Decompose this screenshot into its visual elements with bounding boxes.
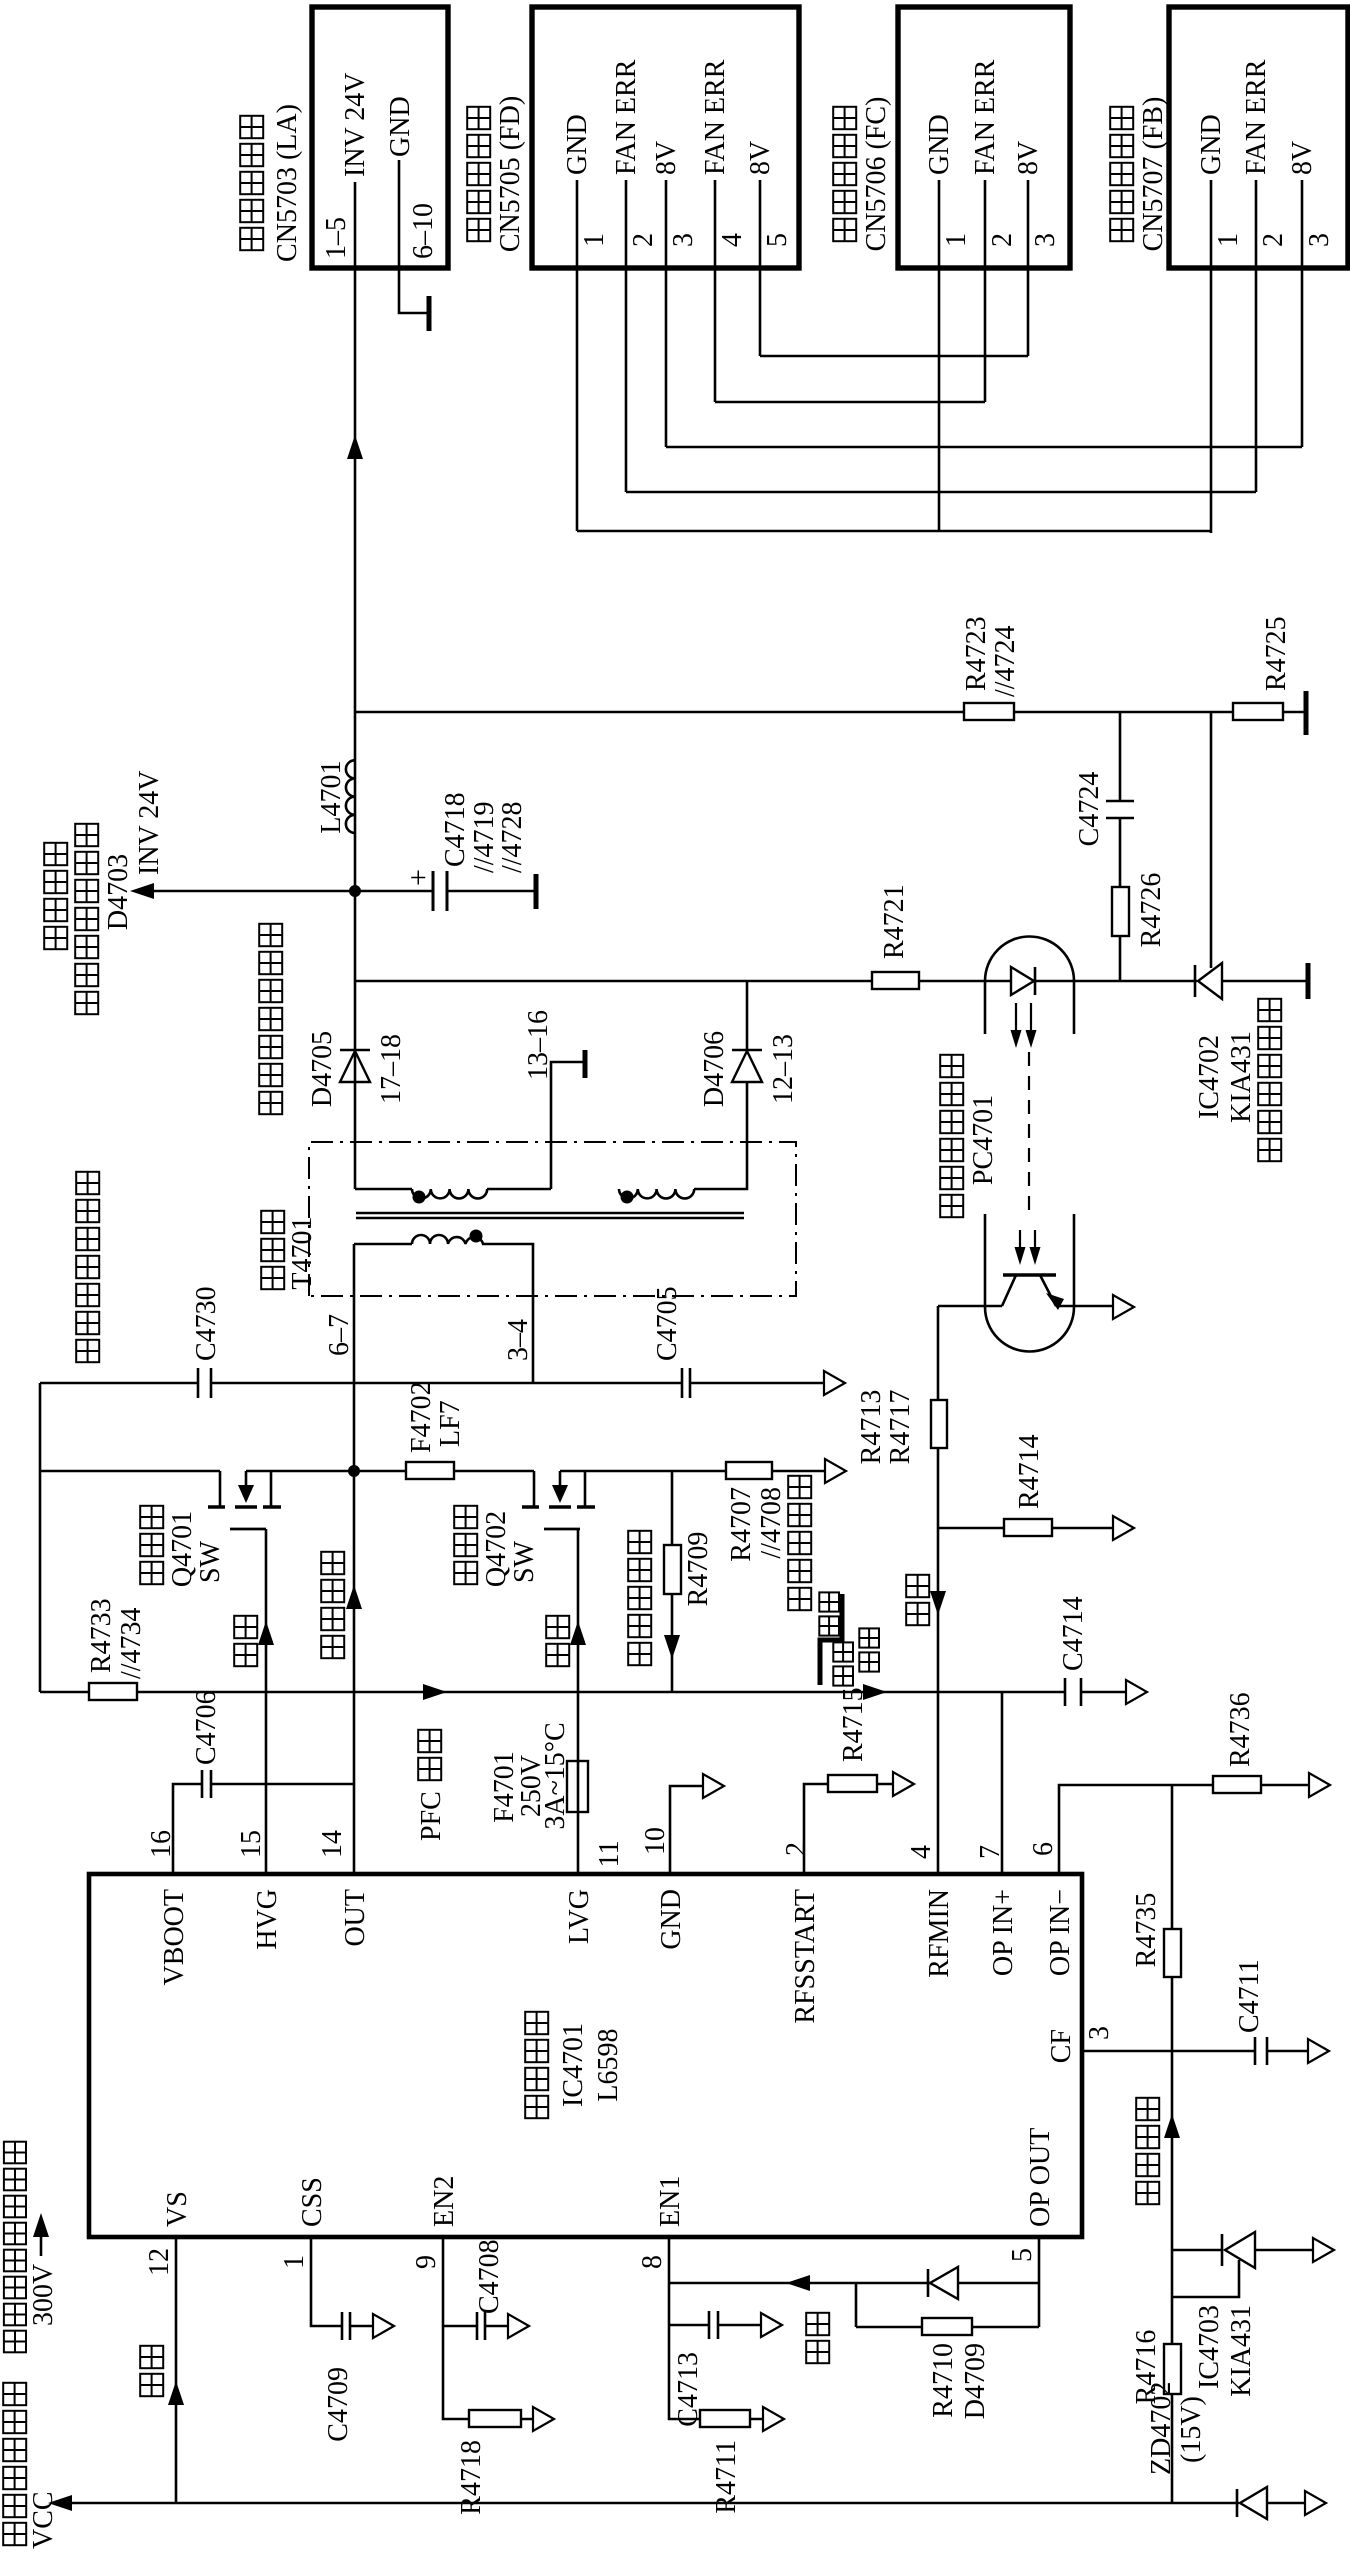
svg-text:IC4703: IC4703	[1194, 2305, 1225, 2389]
svg-text:R4714: R4714	[1014, 1434, 1045, 1509]
svg-text:6–7: 6–7	[324, 1314, 355, 1356]
svg-text:LVG: LVG	[564, 1889, 595, 1944]
wire CF pin3 branch	[1082, 2050, 1308, 2053]
svg-text:CN5703 (LA): CN5703 (LA)	[272, 104, 303, 262]
svg-text:R4723: R4723	[961, 616, 992, 691]
wire OP IN+ pin7 line	[1001, 1692, 1004, 1874]
PC4701 phototransistor arrows	[1015, 1230, 1041, 1265]
arrow 基准电压 on reference line	[1136, 2098, 1180, 2204]
wire LVG gate drive line to Q4702	[577, 1529, 580, 1874]
wire RFSSTART pin2 branch with R4715	[804, 1784, 893, 1874]
terminal triangle below C4711	[1308, 2039, 1329, 2063]
svg-text:VCC: VCC	[28, 2491, 59, 2549]
pin 12 VS	[144, 2191, 193, 2276]
shunt regulator IC4703 KIA431	[1172, 2232, 1313, 2397]
svg-text:R4715: R4715	[838, 1687, 869, 1762]
terminal triangle at pin10 GND	[703, 1774, 724, 1798]
wire FC pin3 lead	[1027, 270, 1030, 356]
svg-text:OUT: OUT	[340, 1889, 371, 1947]
transistor Q4702 SW	[454, 1471, 595, 1587]
svg-text:PC4701: PC4701	[968, 1095, 999, 1185]
wire to overvoltage protection D4703	[44, 771, 355, 1015]
svg-text:R4711: R4711	[711, 2440, 742, 2514]
svg-text:KIA431: KIA431	[1226, 2305, 1257, 2397]
svg-text:CF: CF	[1046, 2029, 1077, 2063]
wire GND bus FD1-FC1-FB1	[577, 530, 1211, 533]
svg-text:D4709: D4709	[960, 2343, 991, 2419]
svg-text:R4710: R4710	[928, 2343, 959, 2418]
resistor R4736	[1213, 1692, 1261, 1793]
arrow 供电 on VS line	[140, 2346, 184, 2405]
PC4701 phototransistor	[1002, 1275, 1064, 1310]
label 半桥式输出电路	[76, 1340, 99, 1362]
fuse F4701 250V 3A~15C	[489, 1722, 588, 1829]
pin 2 FAN ERR of CN5705	[611, 59, 659, 270]
wire D4706 output up to regulation rail tee	[746, 981, 749, 1050]
svg-text:R4713: R4713	[856, 1390, 887, 1465]
svg-text:2: 2	[781, 1842, 812, 1856]
arrow 保护 lower on PFC line	[863, 1684, 887, 1700]
svg-text:14: 14	[317, 1830, 348, 1858]
svg-text:C4724: C4724	[1074, 772, 1105, 847]
svg-text:R4736: R4736	[1225, 1692, 1256, 1767]
terminal triangle below R4736	[1309, 1773, 1330, 1797]
svg-text:8V: 8V	[745, 141, 776, 175]
resistor R4713/R4717	[856, 1390, 947, 1465]
svg-text:10: 10	[640, 1827, 671, 1855]
svg-text:FAN ERR: FAN ERR	[700, 59, 731, 175]
svg-text:L4701: L4701	[316, 760, 347, 833]
resistor R4711	[700, 2410, 750, 2514]
label 从整流滤波电路来 300V input	[4, 2142, 59, 2353]
label 二次侧整流滤波	[259, 1092, 282, 1114]
svg-text:3: 3	[668, 233, 699, 247]
svg-text:EN2: EN2	[429, 2176, 460, 2227]
svg-text:8V: 8V	[1287, 141, 1318, 175]
svg-text:15: 15	[236, 1830, 267, 1858]
svg-text:7: 7	[975, 1845, 1006, 1859]
wire secondary top lead (pin 17-18 side)	[355, 1188, 412, 1191]
svg-text:OP OUT: OP OUT	[1025, 2128, 1056, 2227]
pin 3 8V of CN5706	[1013, 141, 1061, 270]
svg-text:3A~15°C: 3A~15°C	[540, 1722, 571, 1829]
svg-text:1: 1	[579, 233, 610, 247]
svg-text:C4709: C4709	[323, 2367, 354, 2442]
svg-text:300V: 300V	[28, 2264, 59, 2326]
resistor R4710	[922, 2318, 972, 2335]
IC4701 L6598 driver box	[89, 1874, 1082, 2237]
wire EN1 protection branch to OP OUT	[669, 2283, 1039, 2327]
winding 12-13 of T4701	[619, 1189, 694, 1198]
terminal triangle below R4711	[763, 2407, 784, 2431]
svg-text:SW: SW	[509, 1540, 540, 1583]
fuse F4702 LF7	[406, 1381, 466, 1479]
svg-text:5: 5	[762, 233, 793, 247]
svg-text:CN5705 (FD): CN5705 (FD)	[495, 96, 526, 252]
wire CSS pin1 branch with C4709	[311, 2237, 373, 2326]
pin 10 GND	[640, 1827, 687, 1950]
wire KIA431 ref line / CN5707 pin1 GND lead	[1210, 712, 1213, 968]
svg-text:8V: 8V	[1013, 141, 1044, 175]
svg-text:C4718: C4718	[440, 792, 471, 867]
svg-text:OP IN−: OP IN−	[1045, 1889, 1076, 1976]
wire EN1 pin8 line	[669, 2237, 763, 2419]
svg-text:R4726: R4726	[1136, 873, 1167, 948]
arrow 稳压 on RFMIN line	[906, 1575, 946, 1625]
capacitor C4714	[1058, 1596, 1089, 1706]
pin 2 RFSSTART	[781, 1842, 821, 2024]
terminal triangle below R4715	[893, 1772, 914, 1796]
wire secondary bottom lead to D4706	[694, 1082, 747, 1189]
resistor R4735	[1131, 1893, 1181, 1977]
svg-text:1: 1	[1213, 233, 1244, 247]
svg-text:R4721: R4721	[879, 884, 910, 959]
diode D4706 (12-13 rectifier)	[699, 1031, 799, 1107]
svg-text:13–16: 13–16	[523, 1010, 554, 1080]
capacitor C4706	[191, 1690, 222, 1798]
svg-text:2: 2	[987, 233, 1018, 247]
polarity dot winding 17-18	[413, 1191, 426, 1204]
svg-text:ZD4702: ZD4702	[1146, 2382, 1177, 2475]
svg-text:D4705: D4705	[307, 1031, 338, 1107]
svg-text:8: 8	[637, 2255, 668, 2269]
svg-text:9: 9	[411, 2255, 442, 2269]
wire FAN ERR bus FD4-FC2	[715, 401, 985, 404]
pin 6-10 GND stub of CN5703	[385, 96, 439, 313]
svg-text:RFMIN: RFMIN	[924, 1889, 955, 1978]
resistor R4726	[1112, 873, 1167, 948]
pin 1-5 INV 24V stub of CN5703	[321, 73, 371, 270]
pin 15 HVG	[236, 1830, 283, 1950]
pin 1 GND of CN5705	[562, 114, 610, 270]
svg-text:6–10: 6–10	[408, 203, 439, 259]
optocoupler PC4701 LED	[1011, 967, 1034, 995]
svg-text:VBOOT: VBOOT	[159, 1889, 190, 1985]
capacitor C4711	[1234, 1959, 1267, 2065]
wire FC pin2 lead	[984, 270, 987, 402]
terminal triangle below C4713	[761, 2313, 782, 2337]
ground bar for CN5703 GND pin	[427, 296, 432, 331]
svg-text:C4708: C4708	[474, 2239, 505, 2314]
capacitor C4724	[1074, 772, 1134, 847]
pin 5 OP OUT	[1007, 2128, 1056, 2262]
pin 3 CF	[1046, 2026, 1115, 2063]
svg-text:R4733: R4733	[86, 1598, 117, 1673]
svg-text:IC4701: IC4701	[558, 2023, 589, 2107]
terminal triangle at PC4701 emitter	[1113, 1295, 1134, 1319]
svg-text:1–5: 1–5	[321, 217, 352, 259]
resistor R4718	[456, 2410, 521, 2515]
arrow VCC up	[48, 2495, 72, 2511]
svg-text:GND: GND	[562, 114, 593, 175]
svg-text:VS: VS	[162, 2191, 193, 2227]
terminal triangle below ZD4702	[1305, 2491, 1326, 2515]
level marks 正常/保护	[819, 1592, 879, 1685]
arrow PFC检测 on PFC line	[416, 1684, 447, 1841]
pin 3 8V of CN5707	[1287, 141, 1335, 270]
svg-text:C4705: C4705	[652, 1286, 683, 1361]
svg-text:GND: GND	[924, 114, 955, 175]
wire FB pin2 lead	[1255, 270, 1258, 492]
svg-text:R4707: R4707	[726, 1487, 757, 1562]
terminal triangle below R4707	[825, 1459, 846, 1483]
svg-text:GND: GND	[1196, 114, 1227, 175]
svg-text:INV 24V: INV 24V	[340, 73, 371, 177]
arrow 激励 on LVG line	[546, 1616, 586, 1666]
wire VS pin12 supply line	[175, 2237, 178, 2503]
svg-text:IC4702: IC4702	[1194, 1035, 1225, 1119]
optocoupler PC4701 LED-side capsule	[985, 937, 1074, 1035]
svg-text:12: 12	[144, 2248, 175, 2276]
pin 1 GND of CN5707	[1196, 114, 1244, 533]
terminal triangle below C4708	[508, 2314, 529, 2338]
ground bar below IC4702	[1306, 963, 1311, 999]
resistor R4714	[1004, 1434, 1052, 1536]
terminal triangle below R4714	[1113, 1516, 1134, 1540]
wire RFMIN line: pin4 to opto collector and CN5706 pin1	[937, 1306, 940, 1874]
svg-text:C4714: C4714	[1058, 1596, 1089, 1671]
svg-text:HVG: HVG	[252, 1889, 283, 1950]
svg-text:D4703: D4703	[103, 854, 134, 930]
svg-text:LF7: LF7	[435, 1400, 466, 1447]
svg-text:CN5707 (FB): CN5707 (FB)	[1138, 97, 1169, 252]
svg-text:(15V): (15V)	[1176, 2396, 1207, 2463]
svg-text:FAN ERR: FAN ERR	[970, 59, 1001, 175]
wire +300V top rail	[39, 1383, 42, 1692]
ground bar below R4725	[1304, 691, 1309, 735]
svg-text:4: 4	[906, 1845, 937, 1859]
shunt regulator IC4702 KIA431	[1194, 963, 1281, 1161]
svg-text:2: 2	[628, 233, 659, 247]
wire secondary center tap 13-16	[487, 1062, 583, 1189]
arrow 保护 on EN1 branch	[786, 2275, 829, 2363]
pin 4 FAN ERR of CN5705	[700, 59, 748, 270]
pin 5 8V of CN5705	[745, 141, 793, 270]
transformer T4701 dash-dot boundary	[261, 1142, 796, 1296]
svg-text:KIA431: KIA431	[1226, 1031, 1257, 1123]
wire regulation rail (24V to opto/KIA431)	[355, 980, 1308, 983]
capacitor C4730	[191, 1286, 222, 1398]
wire primary bottom lead 3-4 to resonant cap line	[482, 1244, 534, 1382]
svg-text:PFC: PFC	[416, 1791, 447, 1841]
polarity dot primary	[470, 1230, 483, 1243]
labels R4710 D4709	[928, 2343, 991, 2419]
svg-text:R4725: R4725	[1261, 616, 1292, 691]
resistor R4725	[1233, 616, 1292, 720]
resistor R4715	[828, 1687, 877, 1792]
wire R4709 overcurrent branch	[671, 1471, 674, 1692]
pin 9 EN2	[411, 2176, 460, 2269]
wire primary top lead 6-7	[324, 1244, 412, 1356]
wire FD pin4 lead	[714, 270, 717, 402]
svg-text:EN1: EN1	[655, 2176, 686, 2227]
wire CN5706 pin1 lead from GND bus	[938, 270, 941, 531]
pin 6 OP IN-	[1028, 1842, 1076, 1976]
svg-text:CSS: CSS	[297, 2177, 328, 2227]
wire VCC supply line	[62, 2502, 1305, 2505]
label PC4701	[940, 1055, 999, 1217]
wire HVG gate drive line to Q4701	[265, 1529, 268, 1874]
node: half-bridge midpoint junction dot	[348, 1465, 360, 1477]
svg-text:RFSSTART: RFSSTART	[790, 1889, 821, 2024]
resistor R4723//4724	[961, 616, 1021, 720]
capacitor C4709	[323, 2312, 354, 2442]
resistor R4707//4708 current sense	[726, 1462, 811, 1610]
svg-text:3: 3	[1030, 233, 1061, 247]
svg-text:FAN ERR: FAN ERR	[1241, 59, 1272, 175]
svg-text:CN5706 (FC): CN5706 (FC)	[861, 97, 892, 252]
svg-text:F4702: F4702	[406, 1381, 437, 1453]
resistor R4709	[628, 1531, 714, 1665]
pin 2 FAN ERR of CN5706	[970, 59, 1018, 270]
capacitor C4705	[652, 1286, 690, 1398]
terminal triangle below C4714	[1126, 1680, 1147, 1704]
svg-text:OP IN+: OP IN+	[988, 1889, 1019, 1976]
svg-text:GND: GND	[656, 1889, 687, 1950]
terminal triangle below R4718	[533, 2407, 554, 2431]
svg-text:Q4702: Q4702	[481, 1511, 512, 1587]
connector CN5705 (FD) box	[467, 7, 799, 268]
PC4701 optical dashed axis	[1028, 1052, 1030, 1219]
svg-text:R4735: R4735	[1131, 1893, 1162, 1968]
label 从待机电路来 VCC input	[3, 2383, 59, 2549]
svg-text:GND: GND	[385, 96, 416, 157]
wire C4724/R4726 compensation branch	[1119, 712, 1122, 981]
pin 16 VBOOT	[146, 1830, 190, 1985]
terminal triangle below IC4703	[1313, 2238, 1334, 2262]
svg-text:1: 1	[279, 2255, 310, 2269]
inductor L4701	[316, 760, 355, 833]
wire reference line VCC to pin6 node	[1171, 1785, 1174, 2503]
svg-text:5: 5	[1007, 2248, 1038, 2262]
pin 1 CSS	[279, 2177, 328, 2269]
wire FD pin3 lead	[665, 270, 668, 447]
pin 1 GND of CN5706	[924, 114, 972, 270]
wire PFC detect line	[40, 1691, 1126, 1694]
wire FD pin2 lead	[625, 270, 628, 492]
svg-text:4: 4	[717, 233, 748, 247]
wire PC4701 collector lead	[938, 1305, 1002, 1308]
svg-text:3: 3	[1084, 2026, 1115, 2040]
svg-text:3: 3	[1304, 233, 1335, 247]
wire R4723 branch from 24V rail	[355, 711, 1306, 714]
capacitor C4718//4719//4728 (output filter)	[355, 792, 534, 911]
svg-text:R4709: R4709	[683, 1532, 714, 1607]
svg-text:C4711: C4711	[1234, 1959, 1265, 2033]
node: junction dot 24V rail / D4703 / C4718	[349, 885, 361, 897]
optocoupler PC4701 transistor-side capsule	[985, 1214, 1074, 1352]
winding 17-18 of T4701	[412, 1189, 487, 1198]
diode D4705 (17-18 rectifier)	[307, 1031, 407, 1107]
svg-text:FAN ERR: FAN ERR	[611, 59, 642, 175]
wire FD pin5 lead	[759, 270, 762, 356]
wire 8V bus FD5-FC3	[760, 355, 1028, 358]
svg-text://4728: //4728	[497, 801, 528, 873]
wire FAN ERR bus FD2-FB2	[626, 491, 1256, 494]
pin 7 OP IN+	[975, 1845, 1019, 1976]
pin 14 OUT	[317, 1830, 371, 1947]
zener ZD4702 (15V)	[1146, 2382, 1267, 2519]
svg-text:12–13: 12–13	[768, 1034, 799, 1104]
connector CN5706 (FC) box	[833, 7, 1070, 268]
pin 3 8V of CN5705	[651, 141, 699, 270]
ground bar of C4718	[534, 874, 539, 909]
wire EN1 C4713 branch	[669, 2324, 761, 2327]
wire FB pin3 lead	[1301, 270, 1304, 447]
wire 8V bus FD3-FB3	[666, 446, 1302, 449]
winding 6-7/3-4 primary of T4701	[412, 1235, 483, 1244]
wire OUT midpoint rail	[353, 1244, 356, 1874]
svg-text:6: 6	[1028, 1842, 1059, 1856]
svg-text:2: 2	[1258, 233, 1289, 247]
svg-text:R4718: R4718	[456, 2440, 487, 2515]
arrow on R4709 branch	[664, 1635, 680, 1659]
svg-text:8V: 8V	[651, 141, 682, 175]
svg-text://4724: //4724	[990, 625, 1021, 697]
capacitor C4713	[673, 2311, 718, 2427]
wire half-bridge switch rail	[40, 1470, 825, 1473]
svg-text://4734: //4734	[116, 1607, 147, 1679]
svg-text:C4706: C4706	[191, 1690, 222, 1765]
pin 11 LVG	[564, 1841, 625, 1944]
svg-text:T4701: T4701	[287, 1216, 318, 1289]
wire VBOOT bootstrap line with C4706	[173, 1784, 354, 1874]
connector CN5707 (FB) box	[1110, 7, 1348, 268]
resistor R4733//4734	[86, 1598, 147, 1700]
wire GND pin10 to terminal	[670, 1786, 703, 1874]
pin 2 FAN ERR of CN5707	[1241, 59, 1289, 270]
transistor Q4701 SW	[140, 1471, 281, 1587]
terminal triangle below C4709	[373, 2314, 394, 2338]
svg-text:3–4: 3–4	[503, 1319, 534, 1361]
svg-text:SW: SW	[195, 1540, 226, 1583]
diode D4709	[928, 2267, 958, 2299]
ground bar of center tap 13-16	[523, 1010, 585, 1080]
PC4701 light arrows	[1011, 1003, 1037, 1048]
svg-text:INV 24V: INV 24V	[134, 771, 165, 875]
arrow on 24V rail toward connector	[347, 435, 363, 459]
svg-text:D4706: D4706	[699, 1031, 730, 1107]
wire OP OUT pin5 lead	[1038, 2237, 1041, 2327]
pin 8 EN1	[637, 2176, 686, 2269]
polarity dot winding 12-13	[621, 1191, 634, 1204]
svg-text:C4730: C4730	[191, 1286, 222, 1361]
wire OP IN- pin6 lead	[1059, 1785, 1309, 1874]
wire R4714 branch	[938, 1527, 1113, 1530]
terminal triangle below C4705	[824, 1371, 845, 1395]
arrow 中点输出 on midpoint rail	[321, 1552, 362, 1658]
resistor R4716	[1131, 2330, 1181, 2405]
svg-text:R4717: R4717	[885, 1390, 916, 1465]
wire EN2 pin9 branch	[443, 2237, 533, 2419]
connector CN5703 (LA) box	[240, 7, 448, 268]
svg-text:+: +	[402, 869, 435, 886]
resistor R4721	[872, 884, 919, 989]
svg-text:11: 11	[594, 1841, 625, 1868]
wire INV 24V rail (secondary output)	[354, 270, 357, 1189]
arrow 激励 on HVG line	[234, 1616, 274, 1666]
svg-text:17–18: 17–18	[376, 1034, 407, 1104]
wire FD pin1 lead to GND bus	[576, 270, 579, 531]
svg-text://4719: //4719	[469, 801, 500, 873]
svg-text:L6598: L6598	[593, 2028, 624, 2101]
capacitor C4708	[474, 2239, 505, 2340]
pin 4 RFMIN	[906, 1845, 955, 1978]
svg-text:Q4701: Q4701	[167, 1511, 198, 1587]
wire C4730/C4705 resonant branch	[40, 1382, 824, 1385]
wire PC4701 emitter lead	[1056, 1305, 1113, 1308]
transformer core	[356, 1213, 744, 1218]
